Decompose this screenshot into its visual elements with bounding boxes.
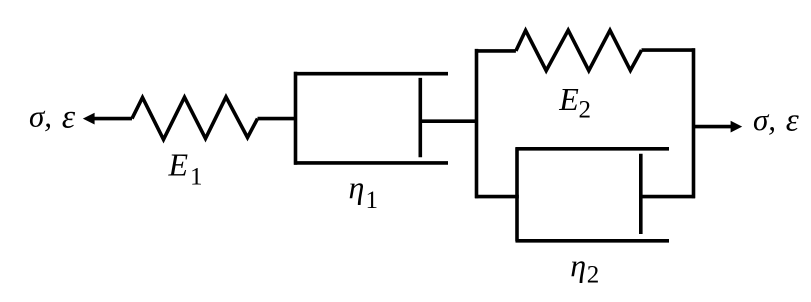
- svg-text:η: η: [570, 247, 586, 283]
- spring E1: [132, 97, 258, 140]
- svg-text:1: 1: [190, 163, 203, 190]
- wire dashpot η2 piston rod: [641, 195, 695, 199]
- wire right arrow shaft: [694, 125, 732, 129]
- svg-text:E: E: [168, 147, 189, 183]
- wire dashpot η1 piston rod: [420, 119, 478, 123]
- node parallel-box right wall: [692, 48, 696, 198]
- dashpot η2 cylinder left wall: [515, 147, 519, 241]
- spring E2: [516, 30, 642, 70]
- dashpot η2 cylinder bottom rail: [516, 239, 670, 243]
- wire box top-left: [475, 49, 516, 53]
- arrowhead right (stress/strain output): [731, 121, 743, 133]
- dashpot η1 cylinder bottom rail: [294, 161, 448, 165]
- wire left arrow shaft: [93, 117, 132, 121]
- svg-text:1: 1: [366, 187, 379, 214]
- svg-text:2: 2: [587, 262, 600, 289]
- dashpot η1 cylinder top rail: [294, 72, 448, 76]
- arrowhead left (stress/strain input): [83, 113, 95, 125]
- svg-text:η: η: [349, 169, 365, 205]
- svg-text:E: E: [558, 81, 579, 117]
- svg-text:σ,: σ,: [29, 98, 52, 133]
- svg-text:ε: ε: [62, 99, 76, 136]
- dashpot η1 cylinder left wall: [294, 72, 298, 165]
- svg-text:2: 2: [579, 96, 592, 123]
- dashpot η2 cylinder top rail: [516, 147, 670, 151]
- dashpot η1 piston: [418, 78, 422, 157]
- svg-text:σ,: σ,: [753, 102, 776, 137]
- node parallel-box left wall: [475, 49, 479, 198]
- wire spring E1 to dashpot: [258, 117, 298, 121]
- dashpot η2 piston: [639, 154, 643, 234]
- svg-text:ε: ε: [786, 102, 799, 138]
- wire box top-right: [642, 48, 696, 52]
- wire box bottom-left: [475, 195, 519, 199]
